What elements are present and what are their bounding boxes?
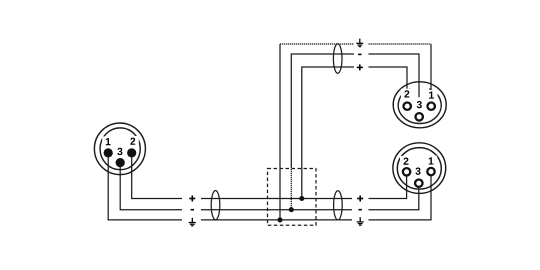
wire bottom minus rail middle segment <box>201 209 352 211</box>
wire junction riser minus dotted part inside junction box <box>290 167 292 210</box>
wire junction riser plus up to top plus rail <box>302 67 354 199</box>
wire bottom ground rail right segment up to pin1 of bottom-right XLR <box>369 172 432 220</box>
plus label bottom-right <box>357 196 363 202</box>
wire bottom ground rail middle segment <box>201 219 352 221</box>
J1 pin 1 (filled) <box>104 148 113 157</box>
J1 pin label 1 background <box>102 136 114 146</box>
junction box (dashed) <box>268 169 317 226</box>
wire junction riser ground up to top ground rail corner <box>279 44 281 220</box>
J3 pin label 1 <box>429 157 434 164</box>
wire bottom plus rail right segment up to pin2 of bottom-right XLR <box>369 172 407 199</box>
junction dot on ground rail <box>277 217 282 222</box>
J2 pin 2 (open) <box>404 103 411 110</box>
wire top plus rail right segment down to pin2 of top-right XLR <box>369 67 408 89</box>
wire top minus rail right segment down to pin3 of top-right XLR <box>369 54 420 97</box>
cable ellipse top <box>333 44 342 74</box>
minus label top <box>358 53 361 55</box>
wire bottom minus rail right segment up to pin3 of bottom-right XLR <box>369 183 419 210</box>
J1 pin 3 (filled) <box>116 158 125 167</box>
J3 pin 1 (open) <box>427 168 434 175</box>
minus label bottom-left <box>191 209 194 211</box>
wire bottom plus rail middle segment <box>201 198 352 200</box>
connector J1 left XLR male outer shell <box>94 123 145 175</box>
ground symbol top <box>356 39 363 47</box>
J1 pin label 3 background <box>114 146 126 156</box>
J1 pin label 3 <box>117 148 122 155</box>
cable ellipse bottom-right <box>334 191 343 220</box>
J2 pin label 1 <box>429 92 434 99</box>
connector J2 top-right XLR female inner ring (keyway gap at top) <box>398 89 441 124</box>
J2 pin label 1 background <box>426 90 438 100</box>
wire top ground rail dotted right segment <box>369 43 432 45</box>
ground symbol bottom-right <box>357 217 364 225</box>
J2 pin label 2 background <box>401 89 413 99</box>
J1 pin label 1 <box>106 138 111 145</box>
minus label bottom-right <box>359 209 362 211</box>
connector J1 left XLR male inner ring <box>100 128 140 170</box>
J1 pin label 2 background <box>127 136 139 146</box>
wire junction riser minus (solid part) up to top minus rail <box>291 54 354 167</box>
wire drop from top ground rail to pin1 of top-right XLR <box>430 44 432 90</box>
connector J2 top-right XLR female outer shell <box>393 82 446 128</box>
wire pin2 left XLR down to bottom plus rail <box>132 153 182 199</box>
plus label top <box>357 64 363 70</box>
J2 pin label 2 <box>404 90 409 97</box>
wire pin3 left XLR down to bottom minus rail <box>120 163 182 210</box>
J1 pin 2 (filled) <box>127 148 136 157</box>
J3 pin label 2 background <box>400 156 412 166</box>
ground symbol bottom-left <box>189 218 196 226</box>
junction dot on minus rail <box>289 207 294 212</box>
J3 pin label 3 background <box>412 166 424 176</box>
J1 pin label 2 <box>130 138 135 145</box>
J3 pin 2 (open) <box>403 168 410 175</box>
junction dot on plus rail <box>299 196 304 201</box>
J2 pin 1 (open) <box>428 103 435 110</box>
cable ellipse bottom-left <box>211 191 220 220</box>
J2 pin 3 (open) <box>416 113 423 120</box>
J2 pin label 3 <box>417 101 422 108</box>
wire top ground rail dotted left segment <box>280 43 354 45</box>
plus label bottom-left <box>189 196 195 202</box>
wire pin1 left XLR down to bottom ground rail <box>108 153 182 220</box>
connector J3 bottom-right XLR female inner ring <box>397 148 441 190</box>
connector J3 bottom-right XLR female outer shell <box>393 143 446 194</box>
J3 pin label 2 <box>404 158 409 165</box>
J3 pin 3 (open) <box>415 180 422 187</box>
J3 pin label 1 background <box>425 156 437 166</box>
J2 pin label 3 background <box>413 99 425 109</box>
J3 pin label 3 <box>415 168 420 175</box>
